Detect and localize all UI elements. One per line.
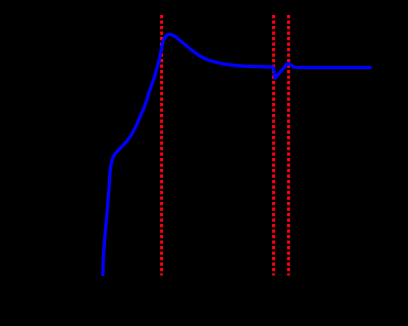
marker line V2 (272, 15, 275, 276)
marker line V1 (160, 15, 163, 276)
marker line V3 (287, 15, 290, 276)
response curve (103, 34, 372, 276)
